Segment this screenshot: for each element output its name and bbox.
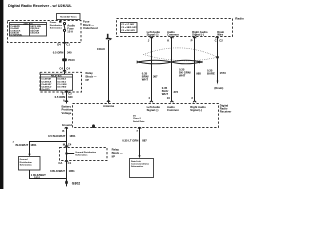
class 2 serial data wire (139, 128, 141, 157)
svg-text:BARE: BARE (207, 72, 215, 76)
svg-text:Hot At All Times: Hot At All Times (60, 15, 77, 18)
svg-text:C3 = DK GRY: C3 = DK GRY (121, 30, 135, 32)
svg-text:C2=48 BLK: C2=48 BLK (41, 80, 52, 83)
svg-text:P: P (191, 38, 193, 42)
svg-text:COAX: COAX (97, 47, 105, 51)
svg-text:340: 340 (67, 50, 72, 54)
terminal E C2 out of relay block (62, 91, 72, 95)
ground distribution schematics box (19, 157, 41, 171)
terminal CA C1 (58, 161, 71, 166)
wire label 0.35 BRN/WHT 367 (142, 72, 158, 82)
svg-text:887: 887 (142, 139, 147, 143)
svg-text:Receiver: Receiver (220, 110, 232, 114)
svg-text:C2: C2 (219, 38, 223, 42)
relay block lower dashed box (60, 148, 108, 161)
label battery positive voltage (62, 104, 73, 114)
svg-text:C9=2 PPL: C9=2 PPL (41, 89, 51, 91)
ground wire from receiver (66, 128, 68, 184)
svg-text:0.5 ORN: 0.5 ORN (55, 95, 66, 99)
svg-text:3 BLK/WHT: 3 BLK/WHT (50, 169, 65, 173)
svg-text:A: A (63, 98, 65, 102)
Fuse Block Underhood name (83, 20, 98, 30)
relay block I/P dashed box (40, 72, 82, 92)
svg-text:BLK/WHT: BLK/WHT (16, 143, 29, 147)
splice pointer to ground distribution note (67, 153, 75, 155)
svg-text:Block —: Block — (112, 151, 123, 155)
shield ellipse dotted (144, 48, 218, 57)
svg-text:C4: C4 (66, 67, 70, 71)
svg-text:WHT: WHT (179, 74, 186, 78)
audio wire middle (171, 37, 173, 102)
svg-text:Distribution: Distribution (20, 161, 33, 164)
coax antenna lead (106, 34, 113, 104)
bus dot (59, 21, 62, 23)
svg-text:1851: 1851 (34, 176, 41, 180)
svg-text:I/P: I/P (112, 154, 116, 158)
wire label 0.35 LT GRN 887 (122, 139, 147, 143)
wire label 3 BLK/WHT 1851 (50, 169, 75, 173)
svg-text:988: 988 (196, 72, 201, 76)
svg-text:Common: Common (167, 33, 179, 37)
svg-text:WHT: WHT (162, 92, 169, 96)
svg-text:Antenna: Antenna (103, 104, 114, 108)
svg-text:Relay: Relay (86, 71, 94, 75)
svg-text:Schematics: Schematics (131, 165, 144, 168)
receiver terminals 4 10 3 (148, 96, 152, 102)
svg-text:Distribution: Distribution (50, 24, 63, 27)
svg-text:Schematics: Schematics (20, 163, 33, 166)
Power Distribution Schematics note (50, 22, 63, 29)
svg-text:C7=1 GRN: C7=1 GRN (57, 84, 67, 86)
svg-text:340: 340 (68, 95, 73, 99)
radio terminals J K P C C2 (148, 37, 153, 42)
svg-text:15 A: 15 A (67, 29, 73, 33)
terminal C4 C4 into relay block (59, 67, 70, 72)
audio wire right (194, 37, 196, 102)
svg-text:C5 NATURAL: C5 NATURAL (10, 34, 23, 37)
svg-text:0.5 ORN: 0.5 ORN (53, 50, 64, 54)
terminal 7 (136, 127, 141, 133)
fuse F (Audio Fuse 15 A) (63, 23, 75, 34)
label audio common (167, 105, 179, 112)
radio pin labels (147, 30, 161, 37)
svg-text:C8=1 RED: C8=1 RED (57, 87, 67, 89)
svg-text:Block —: Block — (86, 74, 97, 78)
svg-text:Ground Distribution: Ground Distribution (75, 151, 96, 154)
svg-text:Relay: Relay (112, 147, 120, 151)
wire label 0.5 BLK/WHT 1851 (48, 134, 76, 138)
wire label 0.35 BARE 1573 (207, 69, 226, 76)
svg-text:1851: 1851 (69, 134, 76, 138)
svg-text:Wire: Wire (217, 33, 223, 37)
svg-text:1851: 1851 (69, 169, 76, 173)
terminal M C4 (63, 143, 72, 147)
svg-text:Radio: Radio (235, 17, 244, 21)
svg-text:RELAY BLK: RELAY BLK (51, 75, 62, 78)
twisted pair lens right (172, 60, 201, 64)
twisted pair lens left (139, 60, 172, 64)
data link connector schematics box (130, 159, 154, 178)
svg-text:10: 10 (167, 96, 171, 100)
label left audio signal (147, 105, 161, 112)
svg-text:367: 367 (153, 75, 158, 79)
svg-text:C7(1) BLK: C7(1) BLK (30, 33, 40, 35)
svg-text:D4: D4 (57, 43, 61, 47)
svg-text:Schematics: Schematics (50, 26, 63, 29)
wire ground distribution to splice (30, 170, 67, 179)
svg-text:C2 = MED GRY: C2 = MED GRY (121, 27, 137, 29)
svg-text:Signal (-): Signal (-) (190, 108, 202, 112)
branch label 1 BLK/WHT 1851 (31, 173, 46, 179)
svg-text:C1 = LT GRY: C1 = LT GRY (121, 24, 135, 26)
branch label 2 BLK/WHT 1851 (13, 141, 37, 147)
terminal B (62, 127, 67, 132)
svg-text:C5=4 BLK: C5=4 BLK (57, 78, 67, 81)
svg-text:372: 372 (174, 90, 179, 94)
label right audio signal (190, 105, 206, 112)
svg-text:WHT: WHT (142, 78, 149, 82)
svg-text:Signal (-): Signal (-) (147, 33, 159, 37)
radio dashed box (117, 19, 233, 37)
svg-text:Serial Data: Serial Data (133, 120, 145, 123)
svg-text:Voltage: Voltage (62, 111, 72, 115)
svg-text:Connector (DLC): Connector (DLC) (131, 162, 149, 165)
arrow into ground distribution box (28, 154, 30, 157)
fuse block connector legend table (10, 23, 47, 37)
relay block lower name (112, 147, 123, 158)
svg-text:C4: C4 (59, 67, 63, 71)
svg-text:Signal (-): Signal (-) (147, 108, 159, 112)
splice junction (65, 152, 67, 154)
wire label 0.5 ORN 340 (53, 50, 72, 54)
svg-text:0.35 LT GRN: 0.35 LT GRN (122, 139, 138, 143)
grommet P100 (62, 58, 75, 62)
svg-text:B: B (62, 129, 64, 133)
shield drain junction dot (216, 56, 219, 59)
terminal D4 C1 (57, 42, 70, 46)
svg-text:Underhood: Underhood (83, 26, 98, 30)
svg-text:Common: Common (167, 108, 179, 112)
svg-text:C3=48 GRY: C3=48 GRY (41, 83, 52, 86)
wire label 0.5 ORN 340 (55, 95, 73, 99)
ground G302 (65, 181, 80, 187)
drain wire (217, 37, 219, 84)
svg-text:C6=1 BLU: C6=1 BLU (57, 81, 67, 83)
audio wire left (151, 37, 153, 102)
arrow into DLC box (138, 155, 140, 158)
svg-text:K: K (167, 38, 169, 42)
case dot on box edge (92, 124, 95, 128)
svg-text:1851: 1851 (30, 143, 37, 147)
svg-text:(Drain): (Drain) (214, 86, 223, 90)
relay block legend table (41, 74, 73, 91)
page sidebar bar (0, 0, 3, 189)
wire label 0.35 DK GRN/WHT 988 (179, 68, 201, 78)
svg-text:G302: G302 (72, 181, 80, 185)
svg-text:C1: C1 (66, 43, 70, 47)
svg-text:Data Link: Data Link (131, 160, 142, 163)
wire fuse to relay block (64, 31, 66, 74)
svg-text:Signal (-): Signal (-) (192, 33, 204, 37)
svg-text:C: C (215, 38, 217, 42)
svg-text:P100: P100 (68, 58, 75, 62)
wire label 0.35 BLK/WHT 372 (162, 86, 179, 96)
svg-text:C1=48 NAT: C1=48 NAT (41, 78, 52, 81)
radio connector legend table (121, 23, 138, 33)
svg-text:0.5 BLK/WHT: 0.5 BLK/WHT (48, 134, 66, 138)
fuse block dashed box (Fuse Block Underhood) (8, 21, 82, 43)
branch wire to ground distribution (30, 142, 67, 155)
digital radio receiver dashed box (73, 104, 219, 128)
svg-text:Digital Radio Receiver - w/ U2: Digital Radio Receiver - w/ U2K/UL (8, 3, 72, 8)
svg-text:CA: CA (58, 161, 62, 165)
svg-text:1573: 1573 (220, 71, 227, 75)
Relay Block I/P name (86, 71, 97, 82)
wire relay block to receiver (66, 90, 68, 103)
svg-text:Ground: Ground (62, 123, 72, 127)
receiver name (220, 104, 232, 114)
Hot At All Times banner (57, 14, 81, 20)
svg-text:I/P: I/P (86, 78, 90, 82)
svg-text:Schematics: Schematics (75, 154, 88, 157)
svg-text:C4: C4 (68, 143, 72, 147)
label class 2 serial data (133, 116, 145, 123)
